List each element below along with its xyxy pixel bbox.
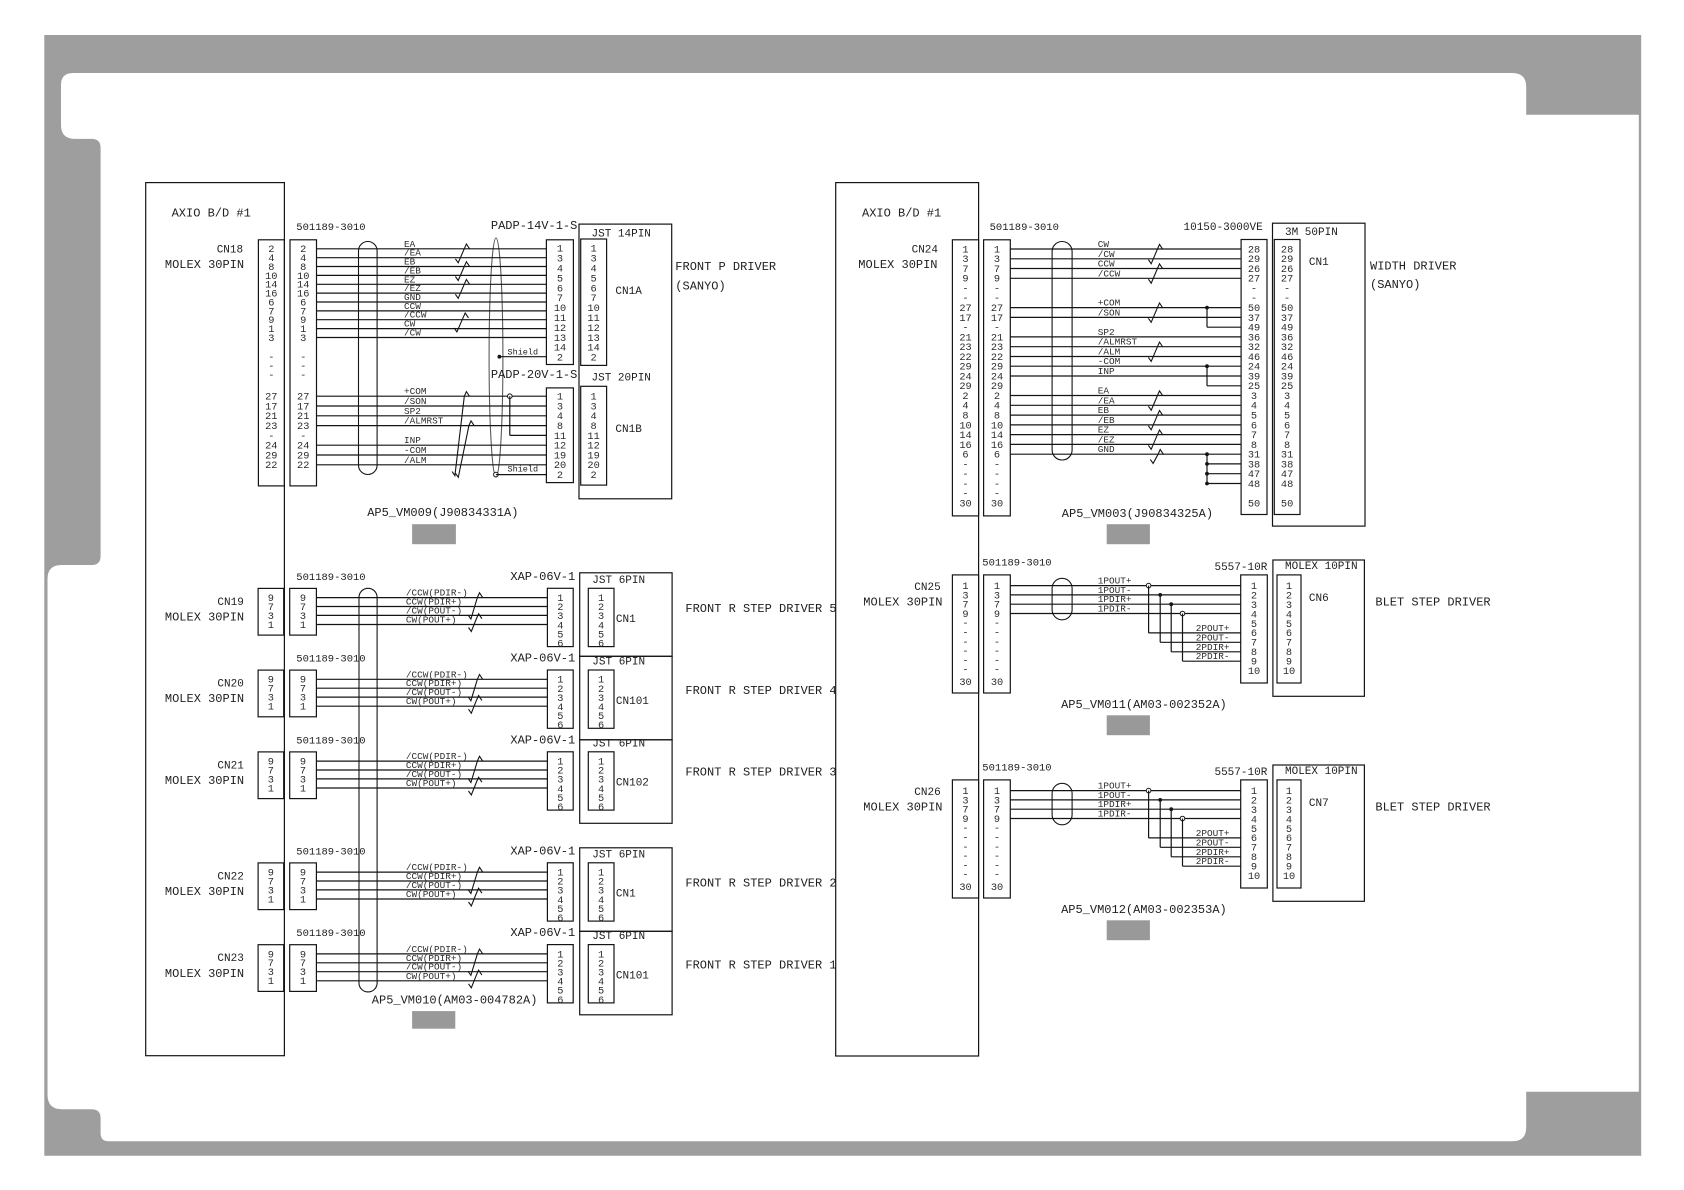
svg-text:Shield: Shield xyxy=(508,347,539,357)
svg-text:CN22: CN22 xyxy=(217,871,243,883)
svg-text:CW(POUT+): CW(POUT+) xyxy=(406,696,457,707)
svg-text:2: 2 xyxy=(557,353,563,365)
svg-text:-: - xyxy=(994,870,1000,882)
svg-text:-: - xyxy=(962,870,968,882)
svg-text:501189-3010: 501189-3010 xyxy=(296,928,365,940)
svg-text:MOLEX 30PIN: MOLEX 30PIN xyxy=(858,258,937,272)
svg-text:CN1B: CN1B xyxy=(615,424,642,436)
svg-text:MOLEX 30PIN: MOLEX 30PIN xyxy=(863,801,942,815)
svg-text:JST 20PIN: JST 20PIN xyxy=(592,372,651,384)
svg-text:/ALMRST: /ALMRST xyxy=(404,416,444,427)
svg-text:CN25: CN25 xyxy=(914,582,940,594)
svg-text:JST 6PIN: JST 6PIN xyxy=(592,657,645,669)
svg-text:501189-3010: 501189-3010 xyxy=(296,222,365,234)
svg-text:CN1: CN1 xyxy=(616,614,636,626)
svg-text:CN20: CN20 xyxy=(217,679,243,691)
svg-text:FRONT P DRIVER: FRONT P DRIVER xyxy=(675,260,776,274)
svg-text:30: 30 xyxy=(991,882,1003,894)
svg-text:10: 10 xyxy=(1248,871,1260,883)
svg-text:22: 22 xyxy=(265,460,277,472)
svg-text:FRONT R STEP DRIVER 5: FRONT R STEP DRIVER 5 xyxy=(685,602,836,616)
svg-text:XAP-06V-1: XAP-06V-1 xyxy=(510,733,575,747)
svg-text:30: 30 xyxy=(991,677,1003,689)
svg-text:6: 6 xyxy=(598,995,604,1007)
svg-text:MOLEX 30PIN: MOLEX 30PIN xyxy=(165,967,244,981)
svg-text:1: 1 xyxy=(268,620,274,632)
svg-text:6: 6 xyxy=(557,720,563,732)
svg-text:1: 1 xyxy=(268,976,274,988)
svg-text:2: 2 xyxy=(557,470,563,482)
svg-text:/CW: /CW xyxy=(404,328,421,339)
svg-text:FRONT R STEP DRIVER 3: FRONT R STEP DRIVER 3 xyxy=(685,766,836,780)
svg-text:-: - xyxy=(962,665,968,677)
svg-text:6: 6 xyxy=(557,913,563,925)
svg-text:6: 6 xyxy=(557,995,563,1007)
svg-text:FRONT R STEP DRIVER 2: FRONT R STEP DRIVER 2 xyxy=(685,877,836,891)
svg-text:JST 6PIN: JST 6PIN xyxy=(592,738,645,750)
svg-text:MOLEX 30PIN: MOLEX 30PIN xyxy=(165,885,244,899)
svg-text:22: 22 xyxy=(297,460,309,472)
svg-text:2PDIR-: 2PDIR- xyxy=(1196,651,1230,662)
svg-text:PADP-20V-1-S: PADP-20V-1-S xyxy=(491,368,577,382)
svg-text:AXIO B/D #1: AXIO B/D #1 xyxy=(862,207,941,221)
svg-text:(SANYO): (SANYO) xyxy=(675,279,725,293)
svg-text:CN23: CN23 xyxy=(217,953,243,965)
svg-text:CN6: CN6 xyxy=(1309,593,1329,605)
svg-text:-: - xyxy=(994,665,1000,677)
svg-text:30: 30 xyxy=(991,498,1003,510)
svg-text:(SANYO): (SANYO) xyxy=(1370,278,1420,292)
svg-text:FRONT R STEP DRIVER 4: FRONT R STEP DRIVER 4 xyxy=(685,684,836,698)
svg-text:BLET STEP DRIVER: BLET STEP DRIVER xyxy=(1375,801,1490,815)
svg-text:50: 50 xyxy=(1281,498,1293,510)
svg-text:XAP-06V-1: XAP-06V-1 xyxy=(510,844,575,858)
svg-text:30: 30 xyxy=(959,498,971,510)
svg-text:501189-3010: 501189-3010 xyxy=(982,763,1051,775)
svg-text:CN26: CN26 xyxy=(914,787,940,799)
svg-text:MOLEX 30PIN: MOLEX 30PIN xyxy=(165,611,244,625)
svg-text:AP5_VM003(J90834325A): AP5_VM003(J90834325A) xyxy=(1062,507,1213,521)
svg-text:CN24: CN24 xyxy=(912,245,939,257)
svg-text:30: 30 xyxy=(959,677,971,689)
svg-text:BLET STEP DRIVER: BLET STEP DRIVER xyxy=(1375,596,1490,610)
svg-text:10150-3000VE: 10150-3000VE xyxy=(1184,222,1264,234)
svg-text:CN7: CN7 xyxy=(1309,798,1329,810)
svg-text:5557-10R: 5557-10R xyxy=(1214,767,1267,779)
svg-text:MOLEX 10PIN: MOLEX 10PIN xyxy=(1285,766,1358,778)
svg-text:-: - xyxy=(268,370,274,382)
svg-text:10: 10 xyxy=(1283,666,1295,678)
svg-text:AP5_VM010(AM03-004782A): AP5_VM010(AM03-004782A) xyxy=(372,994,538,1008)
svg-text:CN18: CN18 xyxy=(217,245,243,257)
svg-text:CN1: CN1 xyxy=(616,889,636,901)
svg-text:3: 3 xyxy=(300,333,306,345)
svg-text:48: 48 xyxy=(1248,479,1260,491)
svg-text:6: 6 xyxy=(598,802,604,814)
svg-text:6: 6 xyxy=(598,913,604,925)
svg-text:MOLEX 30PIN: MOLEX 30PIN xyxy=(863,596,942,610)
svg-text:1: 1 xyxy=(268,783,274,795)
svg-text:3: 3 xyxy=(268,333,274,345)
svg-text:6: 6 xyxy=(598,720,604,732)
svg-text:501189-3010: 501189-3010 xyxy=(296,654,365,666)
svg-text:CN19: CN19 xyxy=(217,597,243,609)
svg-text:/SON: /SON xyxy=(1098,307,1121,318)
svg-text:2: 2 xyxy=(591,470,597,482)
svg-text:2: 2 xyxy=(591,353,597,365)
svg-text:50: 50 xyxy=(1248,498,1260,510)
svg-text:FRONT R STEP DRIVER 1: FRONT R STEP DRIVER 1 xyxy=(685,958,836,972)
svg-text:6: 6 xyxy=(598,639,604,651)
svg-text:CN1A: CN1A xyxy=(615,286,642,298)
svg-text:CW(POUT+): CW(POUT+) xyxy=(406,778,457,789)
svg-text:GND: GND xyxy=(1098,444,1115,455)
svg-text:CW(POUT+): CW(POUT+) xyxy=(406,971,457,982)
svg-text:1PDIR-: 1PDIR- xyxy=(1098,604,1132,615)
svg-text:30: 30 xyxy=(959,882,971,894)
svg-text:AP5_VM011(AM03-002352A): AP5_VM011(AM03-002352A) xyxy=(1061,698,1227,712)
svg-text:MOLEX 30PIN: MOLEX 30PIN xyxy=(165,258,244,272)
svg-text:501189-3010: 501189-3010 xyxy=(296,572,365,584)
svg-text:1PDIR-: 1PDIR- xyxy=(1098,809,1132,820)
svg-text:JST 6PIN: JST 6PIN xyxy=(592,575,645,587)
svg-text:CN102: CN102 xyxy=(616,778,649,790)
svg-text:1: 1 xyxy=(300,894,306,906)
svg-text:6: 6 xyxy=(557,639,563,651)
svg-text:PADP-14V-1-S: PADP-14V-1-S xyxy=(491,219,577,233)
svg-text:-: - xyxy=(300,370,306,382)
svg-text:2PDIR-: 2PDIR- xyxy=(1196,856,1230,867)
svg-text:5557-10R: 5557-10R xyxy=(1214,562,1267,574)
svg-text:JST 6PIN: JST 6PIN xyxy=(592,931,645,943)
svg-text:XAP-06V-1: XAP-06V-1 xyxy=(510,652,575,666)
svg-text:Shield: Shield xyxy=(508,465,539,475)
svg-text:10: 10 xyxy=(1283,871,1295,883)
svg-text:CW(POUT+): CW(POUT+) xyxy=(406,615,457,626)
svg-text:6: 6 xyxy=(557,802,563,814)
svg-text:501189-3010: 501189-3010 xyxy=(296,846,365,858)
svg-text:XAP-06V-1: XAP-06V-1 xyxy=(510,926,575,940)
svg-text:JST 6PIN: JST 6PIN xyxy=(592,849,645,861)
svg-text:CN101: CN101 xyxy=(616,970,649,982)
svg-text:/ALM: /ALM xyxy=(404,455,427,466)
svg-text:1: 1 xyxy=(300,783,306,795)
svg-text:3M 50PIN: 3M 50PIN xyxy=(1285,227,1338,239)
svg-text:MOLEX 30PIN: MOLEX 30PIN xyxy=(165,692,244,706)
svg-text:48: 48 xyxy=(1281,479,1293,491)
svg-text:1: 1 xyxy=(268,894,274,906)
svg-text:XAP-06V-1: XAP-06V-1 xyxy=(510,570,575,584)
svg-text:CN101: CN101 xyxy=(616,696,649,708)
svg-text:INP: INP xyxy=(1098,366,1115,377)
svg-text:MOLEX 10PIN: MOLEX 10PIN xyxy=(1285,561,1358,573)
svg-text:AP5_VM009(J90834331A): AP5_VM009(J90834331A) xyxy=(367,506,518,520)
svg-text:AP5_VM012(AM03-002353A): AP5_VM012(AM03-002353A) xyxy=(1061,903,1227,917)
svg-text:1: 1 xyxy=(300,620,306,632)
svg-text:CW(POUT+): CW(POUT+) xyxy=(406,889,457,900)
svg-text:CN21: CN21 xyxy=(217,760,244,772)
svg-text:WIDTH DRIVER: WIDTH DRIVER xyxy=(1370,259,1456,273)
svg-text:AXIO B/D #1: AXIO B/D #1 xyxy=(172,207,251,221)
svg-text:1: 1 xyxy=(300,976,306,988)
svg-text:501189-3010: 501189-3010 xyxy=(990,222,1059,234)
svg-text:501189-3010: 501189-3010 xyxy=(982,558,1051,570)
svg-text:MOLEX 30PIN: MOLEX 30PIN xyxy=(165,774,244,788)
svg-text:1: 1 xyxy=(268,702,274,714)
svg-text:CN1: CN1 xyxy=(1309,257,1329,269)
svg-text:/CCW: /CCW xyxy=(1098,268,1121,279)
svg-text:501189-3010: 501189-3010 xyxy=(296,735,365,747)
svg-text:10: 10 xyxy=(1248,666,1260,678)
svg-text:1: 1 xyxy=(300,702,306,714)
